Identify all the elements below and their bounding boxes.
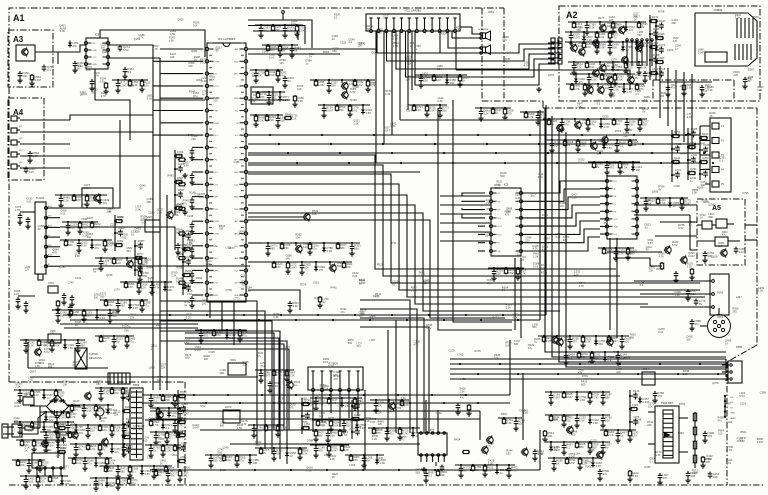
svg-text:1.5K: 1.5K	[15, 208, 21, 212]
svg-text:47u: 47u	[115, 450, 120, 454]
svg-text:100: 100	[253, 461, 258, 465]
svg-text:KEY: KEY	[234, 283, 239, 285]
svg-text:22K: 22K	[174, 213, 179, 217]
svg-text:0.047: 0.047	[688, 254, 695, 258]
svg-text:0.1: 0.1	[619, 144, 623, 148]
svg-text:H.O: H.O	[215, 172, 219, 174]
svg-text:1.5K: 1.5K	[120, 84, 126, 88]
svg-text:47u: 47u	[612, 36, 617, 40]
svg-text:470: 470	[79, 431, 84, 435]
svg-text:47u: 47u	[603, 472, 608, 476]
svg-text:1.5K: 1.5K	[86, 409, 92, 413]
svg-text:100: 100	[548, 434, 553, 438]
svg-text:47u: 47u	[103, 201, 108, 205]
svg-text:330: 330	[440, 473, 445, 477]
svg-text:22K: 22K	[330, 434, 335, 438]
svg-text:0.1: 0.1	[487, 469, 491, 473]
svg-text:680: 680	[340, 246, 345, 250]
svg-text:3.3K: 3.3K	[593, 421, 599, 425]
svg-text:0.047: 0.047	[180, 419, 187, 423]
svg-text:4.7K: 4.7K	[154, 286, 160, 290]
svg-text:9V: 9V	[102, 448, 105, 452]
svg-text:22K: 22K	[616, 68, 621, 72]
svg-text:470: 470	[629, 28, 634, 32]
svg-text:T604: T604	[643, 368, 649, 371]
svg-text:0.1: 0.1	[428, 474, 432, 478]
svg-text:47u: 47u	[702, 135, 707, 139]
svg-text:0.01: 0.01	[28, 480, 34, 484]
svg-text:1.5K: 1.5K	[579, 419, 585, 423]
svg-text:47u: 47u	[695, 322, 700, 326]
svg-text:22K: 22K	[70, 226, 75, 230]
svg-text:0.01: 0.01	[352, 109, 358, 113]
svg-text:2.2K: 2.2K	[125, 434, 131, 438]
svg-text:0.047: 0.047	[333, 424, 340, 428]
svg-text:9V: 9V	[635, 76, 638, 80]
svg-text:680: 680	[304, 425, 309, 429]
svg-text:100: 100	[581, 355, 586, 359]
svg-text:3.3K: 3.3K	[177, 179, 183, 183]
svg-text:560: 560	[42, 464, 47, 468]
svg-text:0.047: 0.047	[331, 449, 338, 453]
svg-text:47u: 47u	[652, 18, 657, 22]
svg-text:9V: 9V	[596, 165, 599, 169]
svg-text:330: 330	[86, 314, 91, 318]
svg-text:9V: 9V	[280, 429, 283, 433]
svg-text:12V: 12V	[116, 261, 121, 265]
svg-text:0.1: 0.1	[169, 436, 173, 440]
svg-text:1K: 1K	[378, 404, 381, 408]
svg-text:4.7K: 4.7K	[70, 415, 76, 419]
svg-text:1K: 1K	[659, 46, 662, 50]
svg-text:GND: GND	[234, 172, 239, 174]
svg-text:680: 680	[68, 243, 73, 247]
svg-text:1K: 1K	[556, 462, 559, 466]
svg-text:47u: 47u	[180, 458, 185, 462]
svg-text:5.5V: 5.5V	[672, 243, 678, 247]
svg-text:47u: 47u	[34, 425, 39, 429]
svg-text:1.5K: 1.5K	[380, 461, 386, 465]
svg-text:470: 470	[319, 268, 324, 272]
svg-text:47u: 47u	[138, 266, 143, 270]
svg-text:0.047: 0.047	[35, 78, 42, 82]
svg-text:0.01: 0.01	[589, 65, 595, 69]
svg-text:0.1: 0.1	[74, 408, 78, 412]
svg-text:GND: GND	[215, 123, 220, 125]
svg-text:1K: 1K	[607, 64, 610, 68]
svg-text:22K: 22K	[186, 258, 191, 262]
svg-text:47u: 47u	[78, 448, 83, 452]
svg-text:22K: 22K	[108, 469, 113, 473]
svg-text:680: 680	[605, 396, 610, 400]
svg-text:12V: 12V	[276, 265, 281, 269]
svg-text:0.047: 0.047	[684, 202, 691, 206]
svg-text:1u: 1u	[659, 22, 662, 26]
svg-text:1K: 1K	[185, 272, 188, 276]
svg-text:T603: T603	[133, 383, 140, 387]
svg-text:680: 680	[177, 153, 182, 157]
svg-text:2.2K: 2.2K	[587, 38, 593, 42]
svg-text:330: 330	[566, 419, 571, 423]
svg-text:X.R: X.R	[215, 184, 219, 186]
svg-text:680: 680	[268, 428, 273, 432]
svg-text:4.7K: 4.7K	[186, 232, 192, 236]
svg-text:2.2K: 2.2K	[133, 306, 139, 310]
svg-text:330: 330	[331, 84, 336, 88]
svg-text:1K: 1K	[462, 79, 465, 83]
svg-text:9V: 9V	[366, 459, 369, 463]
svg-text:47u: 47u	[172, 414, 177, 418]
svg-text:1u: 1u	[323, 300, 326, 304]
svg-text:9V: 9V	[699, 302, 702, 306]
svg-text:9V: 9V	[673, 204, 676, 208]
svg-text:47u: 47u	[579, 80, 584, 84]
svg-text:560: 560	[120, 304, 125, 308]
svg-text:3.3K: 3.3K	[703, 146, 709, 150]
svg-text:H.O: H.O	[215, 258, 219, 260]
svg-text:22K: 22K	[605, 419, 610, 423]
svg-text:2.2K: 2.2K	[691, 292, 697, 296]
svg-text:1K: 1K	[294, 49, 297, 53]
svg-text:47u: 47u	[73, 44, 78, 48]
svg-text:3.3K: 3.3K	[585, 340, 591, 344]
svg-text:4.7K: 4.7K	[94, 225, 100, 229]
svg-text:100: 100	[226, 458, 231, 462]
svg-text:12V: 12V	[629, 123, 634, 127]
svg-text:9V: 9V	[626, 48, 629, 52]
svg-text:12V: 12V	[180, 393, 185, 397]
svg-text:560: 560	[599, 342, 604, 346]
svg-text:RGB: RGB	[215, 61, 220, 63]
svg-text:12V: 12V	[739, 250, 744, 254]
svg-text:5.5V: 5.5V	[84, 186, 90, 190]
svg-text:470: 470	[572, 340, 577, 344]
svg-text:0.01: 0.01	[331, 401, 337, 405]
svg-text:1u: 1u	[176, 280, 179, 284]
svg-text:10K: 10K	[76, 198, 81, 202]
svg-text:0.047: 0.047	[269, 73, 276, 77]
svg-text:330: 330	[353, 458, 358, 462]
svg-text:0.01: 0.01	[186, 284, 192, 288]
svg-text:330: 330	[50, 333, 55, 336]
svg-text:4.7K: 4.7K	[604, 125, 610, 129]
svg-text:3.3K: 3.3K	[256, 429, 262, 433]
svg-text:1.5K: 1.5K	[690, 144, 696, 148]
svg-text:100: 100	[586, 45, 591, 49]
svg-text:VCC: VCC	[93, 57, 98, 59]
svg-text:47u: 47u	[181, 444, 186, 448]
svg-text:470: 470	[114, 391, 119, 395]
svg-text:4.7K: 4.7K	[627, 90, 633, 94]
svg-text:3.3K: 3.3K	[28, 344, 34, 348]
svg-text:0.01: 0.01	[182, 474, 188, 478]
svg-text:0.047: 0.047	[573, 36, 580, 40]
svg-text:470: 470	[73, 313, 78, 317]
svg-text:5.5V: 5.5V	[81, 244, 87, 248]
svg-text:0.047: 0.047	[326, 109, 333, 113]
svg-text:12V: 12V	[416, 108, 421, 112]
svg-text:1K: 1K	[652, 70, 655, 74]
svg-text:47u: 47u	[280, 74, 285, 78]
svg-text:1u: 1u	[158, 473, 161, 477]
svg-text:470: 470	[65, 482, 70, 486]
svg-text:3.3K: 3.3K	[302, 452, 308, 456]
svg-text:12V: 12V	[436, 78, 441, 82]
svg-text:1K: 1K	[31, 464, 34, 468]
svg-text:470: 470	[181, 405, 186, 409]
svg-text:12V: 12V	[128, 285, 133, 289]
svg-text:470: 470	[564, 123, 569, 127]
svg-text:560: 560	[354, 247, 359, 251]
svg-text:GND: GND	[215, 221, 220, 223]
svg-text:1.5K: 1.5K	[68, 346, 74, 350]
svg-text:TU101: TU101	[36, 196, 45, 200]
svg-text:470: 470	[118, 229, 123, 233]
svg-text:1.5K: 1.5K	[617, 78, 623, 82]
svg-text:0.1: 0.1	[354, 416, 358, 420]
svg-text:3.3K: 3.3K	[273, 384, 279, 388]
svg-text:1.5K: 1.5K	[345, 404, 351, 408]
svg-text:12V: 12V	[303, 245, 308, 249]
svg-text:5.5V: 5.5V	[44, 350, 50, 354]
svg-text:4.7K: 4.7K	[592, 396, 598, 400]
svg-text:47u: 47u	[460, 397, 465, 400]
svg-text:HEAT: HEAT	[730, 417, 736, 420]
svg-text:H.O: H.O	[235, 135, 239, 137]
svg-text:3.3K: 3.3K	[293, 304, 299, 308]
svg-text:470: 470	[633, 392, 638, 396]
svg-text:330: 330	[703, 170, 708, 174]
svg-text:1.5K: 1.5K	[641, 66, 647, 70]
svg-text:APC: APC	[215, 294, 220, 297]
svg-text:4.7K: 4.7K	[276, 373, 282, 377]
svg-text:IC3: IC3	[504, 183, 509, 187]
svg-text:2.2K: 2.2K	[258, 119, 264, 123]
svg-text:100: 100	[675, 171, 680, 175]
svg-text:9V: 9V	[632, 406, 635, 410]
svg-text:12V: 12V	[49, 418, 54, 422]
svg-text:3.3K: 3.3K	[483, 112, 489, 116]
svg-text:47u: 47u	[87, 462, 92, 466]
svg-text:10K: 10K	[702, 159, 707, 163]
svg-text:1u: 1u	[294, 383, 297, 387]
svg-text:5.5V: 5.5V	[350, 90, 356, 94]
svg-text:1u: 1u	[620, 434, 623, 438]
svg-text:47u: 47u	[312, 247, 317, 251]
svg-text:100: 100	[346, 265, 351, 269]
svg-text:12V: 12V	[98, 409, 103, 413]
svg-text:12V: 12V	[14, 292, 19, 296]
svg-text:5.5V: 5.5V	[508, 271, 514, 275]
svg-text:1u: 1u	[52, 479, 55, 483]
svg-text:0.1: 0.1	[103, 262, 107, 266]
svg-text:470: 470	[318, 449, 323, 453]
svg-text:1.5K: 1.5K	[33, 154, 39, 158]
svg-text:4.7K: 4.7K	[574, 87, 580, 91]
svg-text:2.2K: 2.2K	[63, 199, 69, 203]
svg-text:DEGAUSS: DEGAUSS	[89, 356, 102, 360]
svg-text:560: 560	[337, 264, 342, 268]
svg-text:470: 470	[203, 334, 208, 338]
svg-text:0.1: 0.1	[176, 255, 180, 259]
svg-text:THP601: THP601	[89, 352, 99, 356]
svg-text:12V: 12V	[632, 434, 637, 438]
svg-text:1.5K: 1.5K	[591, 78, 597, 82]
svg-text:IC5: IC5	[95, 33, 100, 37]
svg-text:22K: 22K	[82, 226, 87, 230]
svg-text:0.047: 0.047	[263, 374, 270, 378]
svg-text:IC2 LA4285: IC2 LA4285	[405, 9, 421, 13]
svg-text:0.047: 0.047	[553, 396, 560, 400]
svg-text:3.3K: 3.3K	[589, 26, 595, 30]
svg-text:VID: VID	[215, 111, 219, 113]
svg-text:22K: 22K	[632, 143, 637, 147]
svg-text:3.3K: 3.3K	[687, 88, 692, 90]
svg-text:10K: 10K	[304, 266, 309, 270]
svg-text:GND: GND	[93, 50, 98, 52]
svg-text:680: 680	[168, 288, 173, 292]
svg-text:9V: 9V	[567, 143, 570, 147]
svg-text:0.01: 0.01	[76, 461, 82, 465]
svg-text:X201: X201	[48, 282, 54, 285]
svg-text:2.2K: 2.2K	[653, 30, 659, 34]
svg-text:4.7K: 4.7K	[103, 392, 109, 396]
svg-text:12V: 12V	[34, 393, 39, 397]
svg-text:1.5K: 1.5K	[165, 449, 171, 453]
svg-text:5.5V: 5.5V	[58, 394, 64, 398]
svg-text:1u: 1u	[103, 339, 106, 343]
svg-text:470: 470	[708, 434, 713, 438]
svg-text:47u: 47u	[144, 304, 149, 308]
svg-text:470: 470	[674, 133, 679, 137]
svg-text:0.047: 0.047	[290, 266, 297, 270]
svg-text:47u: 47u	[242, 334, 247, 338]
svg-text:10K: 10K	[636, 168, 641, 172]
svg-text:1.5K: 1.5K	[126, 446, 132, 450]
svg-text:3.3K: 3.3K	[289, 374, 295, 378]
svg-text:5.5V: 5.5V	[123, 48, 129, 52]
svg-text:0.01: 0.01	[180, 432, 186, 436]
svg-text:0.1: 0.1	[616, 122, 620, 126]
svg-text:680: 680	[318, 434, 323, 438]
svg-text:0.047: 0.047	[318, 83, 325, 87]
svg-text:100: 100	[40, 480, 45, 484]
svg-text:100: 100	[624, 340, 629, 344]
svg-text:0.047: 0.047	[89, 199, 96, 203]
svg-text:47u: 47u	[239, 459, 244, 463]
svg-text:470: 470	[663, 476, 668, 480]
svg-text:680: 680	[80, 344, 85, 348]
svg-text:5.5V: 5.5V	[580, 144, 586, 148]
svg-text:560: 560	[594, 356, 599, 360]
svg-text:1.5K: 1.5K	[125, 408, 131, 412]
svg-text:12V: 12V	[691, 156, 696, 160]
svg-text:SPEAKER: SPEAKER	[478, 28, 489, 31]
svg-text:5.5V: 5.5V	[145, 472, 151, 476]
svg-text:100: 100	[450, 81, 455, 85]
svg-text:0.1: 0.1	[608, 358, 612, 362]
svg-text:0.047: 0.047	[566, 395, 573, 399]
svg-text:0.1: 0.1	[47, 68, 51, 72]
svg-text:4.7K: 4.7K	[520, 272, 526, 276]
svg-text:10K: 10K	[102, 428, 107, 432]
svg-text:A1: A1	[13, 13, 25, 23]
svg-text:47u: 47u	[170, 474, 175, 478]
svg-text:1K: 1K	[258, 74, 261, 78]
svg-text:0.1: 0.1	[285, 116, 289, 120]
svg-text:0.01: 0.01	[271, 96, 277, 100]
svg-text:1K: 1K	[225, 408, 228, 412]
svg-text:1u: 1u	[416, 434, 419, 438]
svg-text:47u: 47u	[305, 412, 310, 416]
svg-text:47u: 47u	[95, 246, 100, 250]
svg-text:680: 680	[270, 247, 275, 251]
svg-text:10K: 10K	[70, 426, 75, 430]
svg-text:560: 560	[270, 48, 275, 52]
svg-text:22K: 22K	[269, 118, 274, 122]
svg-text:10K: 10K	[23, 74, 28, 78]
svg-text:470: 470	[658, 394, 663, 398]
svg-text:CN802: CN802	[714, 8, 723, 12]
svg-text:GND: GND	[614, 226, 619, 228]
svg-text:47u: 47u	[653, 56, 658, 60]
svg-text:47u: 47u	[389, 432, 394, 436]
svg-text:22K: 22K	[165, 398, 170, 402]
svg-text:22K: 22K	[496, 272, 501, 276]
svg-text:12V: 12V	[126, 394, 131, 398]
svg-text:0.1: 0.1	[128, 70, 132, 74]
svg-text:9V: 9V	[605, 446, 608, 450]
svg-text:1.5K: 1.5K	[342, 433, 348, 437]
svg-text:330: 330	[284, 246, 289, 250]
svg-text:2.2K: 2.2K	[608, 433, 614, 437]
svg-text:4.7K: 4.7K	[528, 115, 534, 119]
svg-text:X.R: X.R	[215, 283, 219, 285]
svg-text:1u: 1u	[153, 449, 156, 453]
svg-text:1K: 1K	[700, 217, 703, 220]
svg-text:10K: 10K	[110, 484, 115, 488]
svg-text:0.01: 0.01	[599, 35, 605, 39]
svg-text:12V: 12V	[658, 59, 663, 63]
svg-text:A2: A2	[566, 10, 578, 20]
svg-text:1.5K: 1.5K	[580, 398, 586, 402]
svg-text:H.O: H.O	[215, 135, 219, 137]
svg-text:100: 100	[518, 422, 523, 426]
svg-text:GND: GND	[215, 234, 220, 236]
svg-text:2.2K: 2.2K	[674, 159, 680, 163]
svg-text:0.1: 0.1	[153, 399, 157, 403]
svg-text:0.1: 0.1	[60, 425, 64, 429]
svg-text:5.5V: 5.5V	[366, 111, 372, 115]
svg-text:47u: 47u	[590, 123, 595, 127]
svg-text:GND: GND	[730, 413, 735, 415]
svg-text:OUT: OUT	[234, 270, 239, 272]
svg-text:OUT: OUT	[215, 86, 220, 88]
svg-text:9V: 9V	[290, 454, 293, 458]
svg-text:560: 560	[47, 428, 52, 432]
svg-text:1u: 1u	[99, 464, 102, 468]
svg-text:22K: 22K	[713, 475, 718, 479]
svg-text:5.5V: 5.5V	[569, 461, 575, 465]
svg-text:470: 470	[507, 112, 512, 116]
svg-text:RGB: RGB	[234, 209, 239, 211]
svg-text:330: 330	[213, 459, 218, 463]
svg-text:9V: 9V	[60, 314, 63, 318]
svg-text:4.7K: 4.7K	[94, 76, 99, 78]
svg-text:OUT: OUT	[234, 184, 239, 186]
svg-text:470: 470	[216, 333, 221, 337]
svg-text:0.1: 0.1	[126, 420, 130, 424]
